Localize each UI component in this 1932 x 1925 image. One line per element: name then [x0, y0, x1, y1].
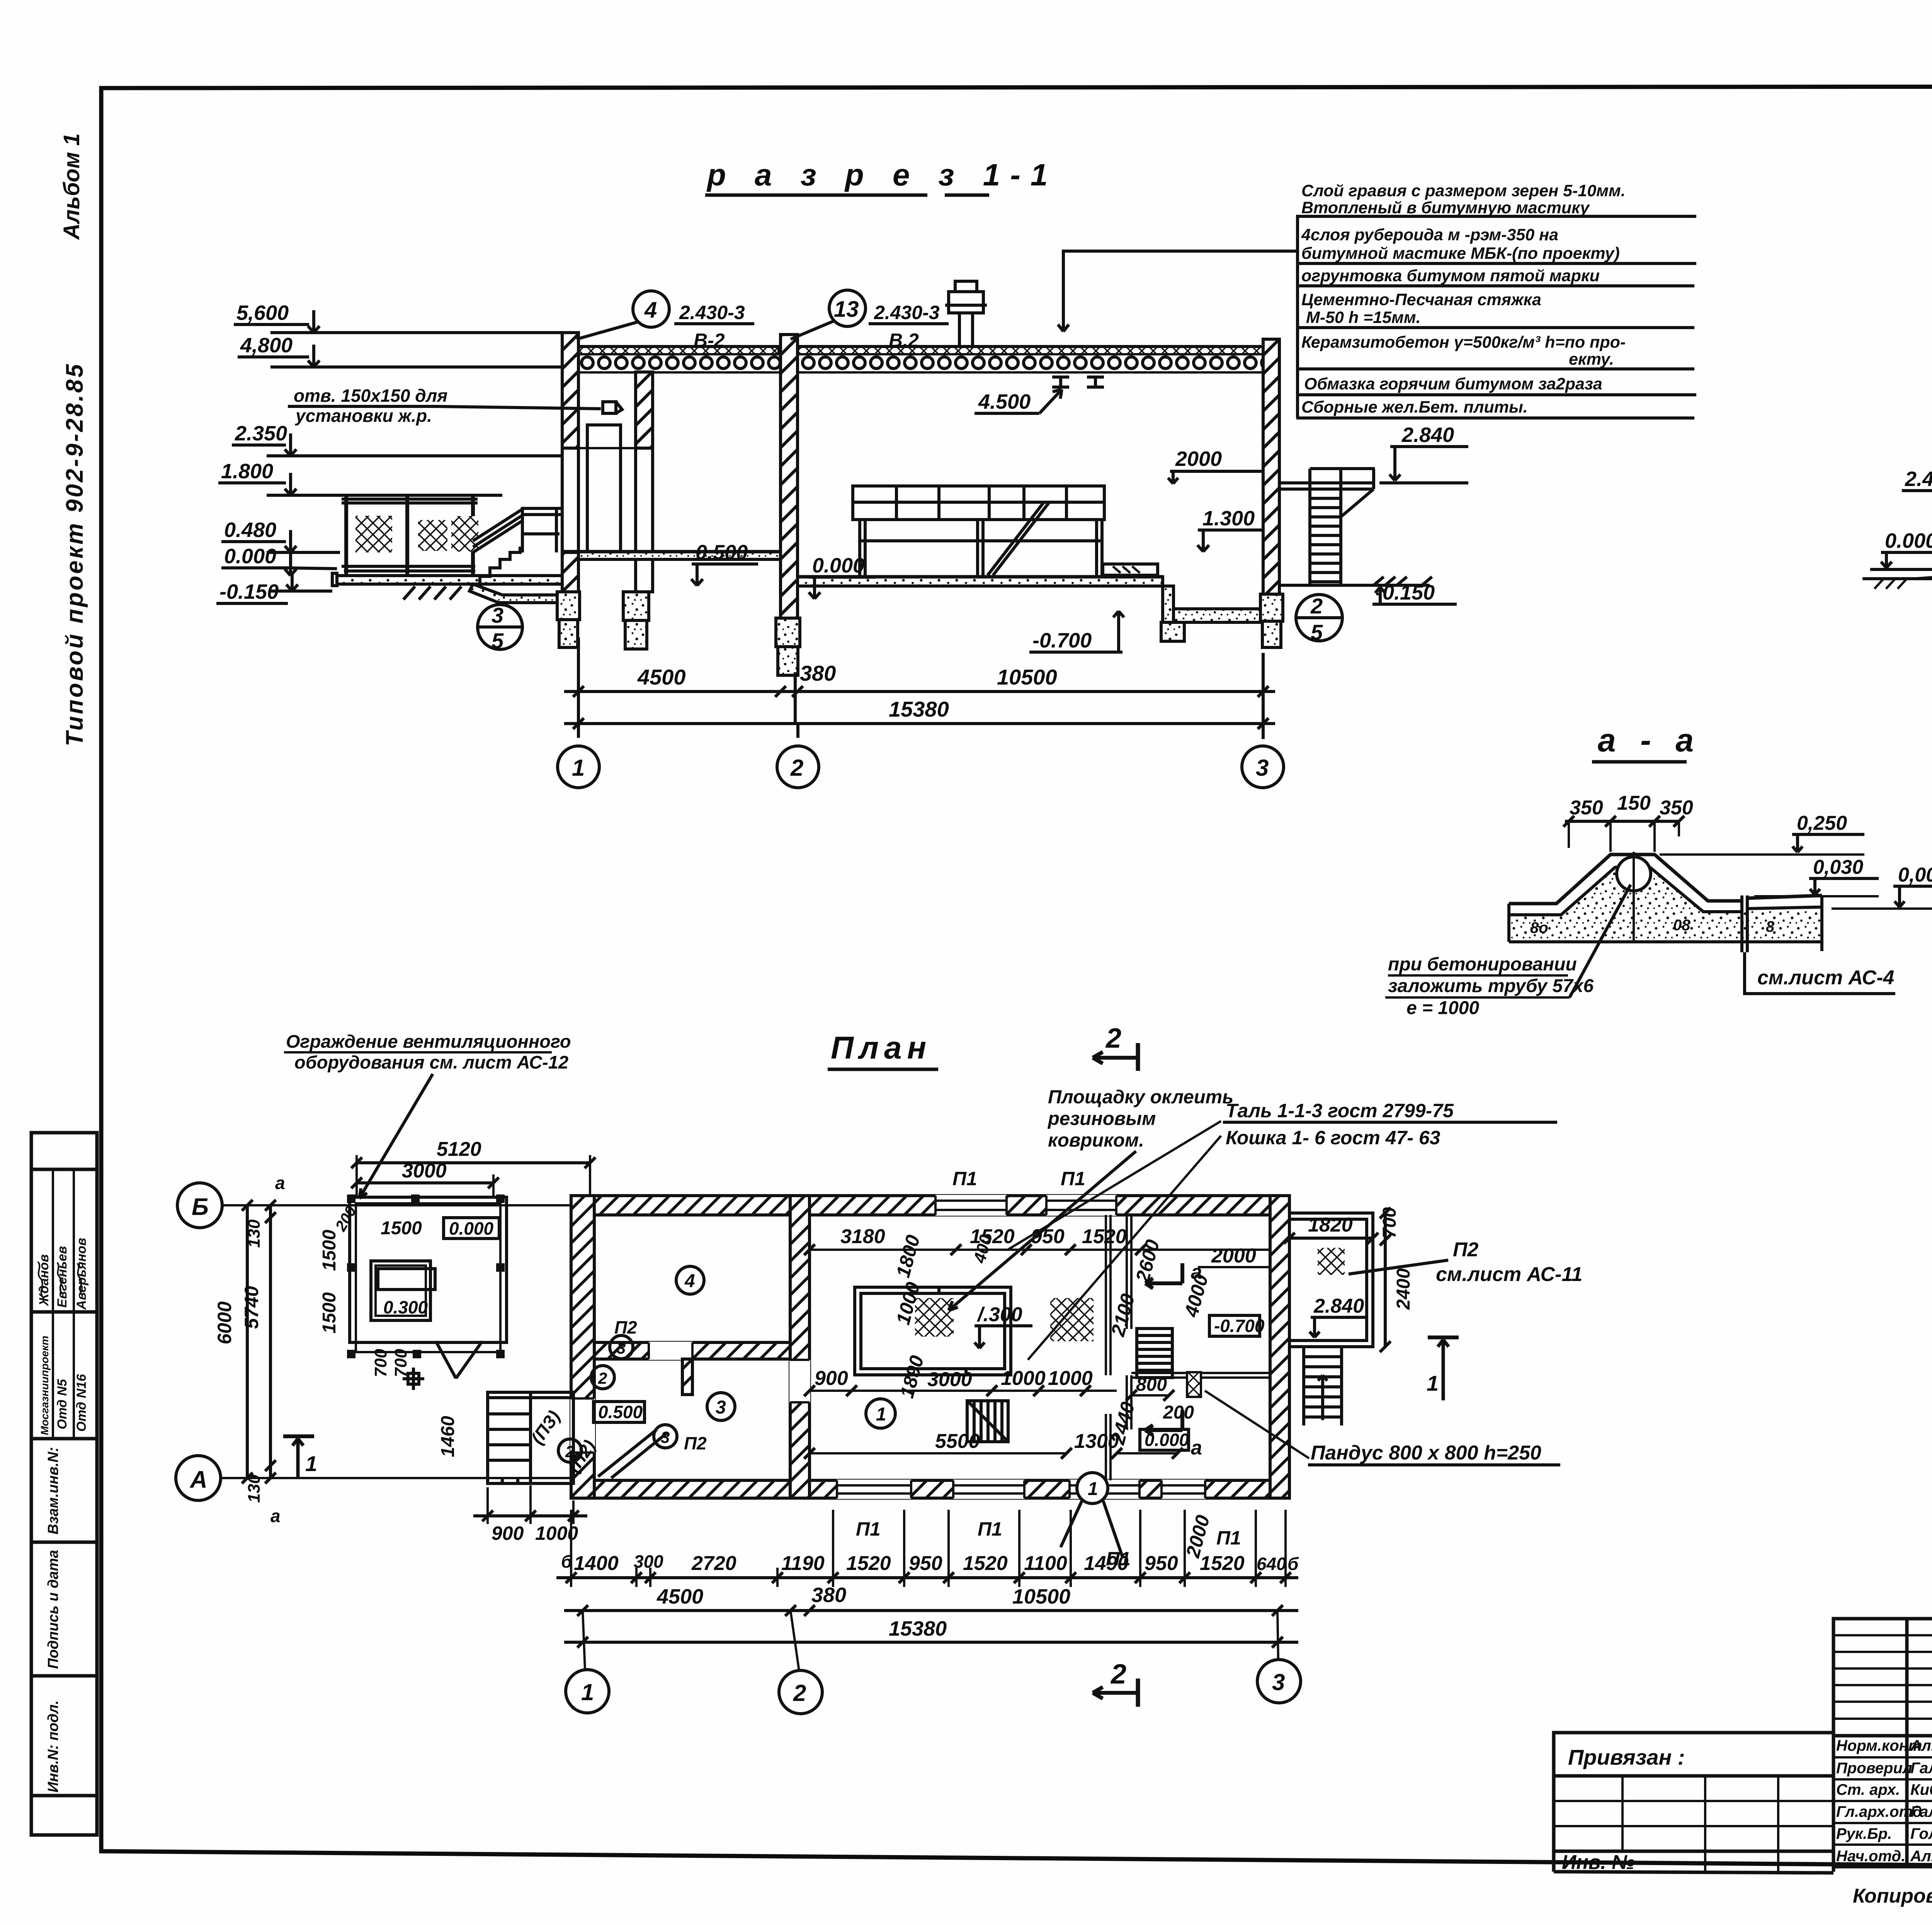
svg-text:а: а	[275, 1173, 285, 1193]
dims 350 150 350	[1563, 792, 1693, 852]
bottom dim chain row1	[556, 1510, 1299, 1587]
svg-text:Пандус 800 х 800 h=250: Пандус 800 х 800 h=250	[1311, 1442, 1541, 1464]
see sheet AC-4	[1745, 952, 1895, 994]
svg-text:3: 3	[661, 1428, 670, 1446]
signature table	[1833, 1619, 1932, 1867]
svg-text:2.415: 2.415	[1905, 467, 1932, 491]
svg-text:10500: 10500	[997, 665, 1057, 689]
svg-text:1: 1	[305, 1451, 317, 1476]
svg-text:0.000: 0.000	[449, 1218, 494, 1239]
dim 2000 door	[1168, 447, 1263, 484]
svg-text:Б: Б	[192, 1194, 209, 1220]
svg-text:Галактионов: Галактионов	[1910, 1803, 1932, 1820]
svg-text:0.480: 0.480	[224, 518, 276, 542]
section mark 2 bottom	[1093, 1659, 1138, 1707]
svg-text:Таль 1-1-3 гост 2799-75: Таль 1-1-3 гост 2799-75	[1226, 1100, 1454, 1121]
stair room1	[967, 1401, 1008, 1442]
svg-text:1: 1	[572, 755, 585, 781]
door opening in wall axis1 area (niche)	[587, 425, 621, 552]
wall axis 2	[781, 335, 798, 618]
svg-text:а: а	[1191, 1437, 1202, 1459]
dim 800 + 200	[1126, 1375, 1194, 1423]
roof slab bay 2	[797, 355, 1263, 372]
roof notes block	[1301, 182, 1626, 416]
svg-text:1500: 1500	[319, 1292, 340, 1334]
svg-text:Цементно-Песчаная стяжка: Цементно-Песчаная стяжка	[1301, 291, 1541, 309]
svg-text:В-2: В-2	[694, 330, 725, 351]
mound section outline	[1509, 855, 1822, 952]
svg-text:2: 2	[790, 755, 803, 781]
svg-text:2.350: 2.350	[235, 422, 287, 445]
svg-text:4: 4	[644, 297, 657, 323]
callout circle 13	[791, 290, 949, 351]
svg-text:700: 700	[371, 1349, 390, 1377]
dims lower room1	[804, 1430, 1183, 1459]
svg-text:Нач.отд.: Нач.отд.	[1836, 1848, 1905, 1865]
svg-text:0.000: 0.000	[1885, 529, 1932, 552]
bottom dim chain row3	[564, 1617, 1298, 1648]
detail circle 3/5	[478, 603, 522, 653]
svg-text:П1: П1	[978, 1518, 1002, 1540]
svg-text:Отд N5: Отд N5	[55, 1379, 70, 1429]
leader to roof	[1058, 251, 1296, 331]
foundation under wall axis2	[776, 618, 800, 675]
svg-text:1520: 1520	[1082, 1225, 1127, 1248]
partition B thin	[1127, 1215, 1131, 1429]
svg-text:П2: П2	[1453, 1239, 1478, 1261]
svg-text:Норм.конт: Норм.конт	[1836, 1737, 1922, 1754]
svg-text:Ст. арх.: Ст. арх.	[1836, 1781, 1900, 1798]
svg-text:1500: 1500	[381, 1218, 422, 1239]
foundation under column	[623, 592, 649, 649]
svg-text:1: 1	[1427, 1371, 1439, 1395]
inner equipment	[371, 1261, 430, 1320]
svg-text:10500: 10500	[1012, 1585, 1070, 1608]
window openings top wall	[935, 1195, 1116, 1216]
svg-text:Втопленый в битумную мастику: Втопленый в битумную мастику	[1301, 199, 1590, 217]
section 1-1 title	[706, 158, 1058, 192]
svg-text:2.430-3: 2.430-3	[874, 302, 940, 323]
section mark 2 top	[1093, 1023, 1138, 1071]
svg-text:130: 130	[245, 1219, 264, 1248]
rotated project label	[59, 133, 88, 746]
exterior stair right	[1279, 469, 1375, 584]
svg-text:Площадку оклеить: Площадку оклеить	[1048, 1087, 1233, 1108]
svg-text:П2: П2	[614, 1317, 637, 1337]
svg-text:0.500: 0.500	[598, 1402, 643, 1422]
section mark 1 right	[1427, 1337, 1459, 1400]
tambour pier	[682, 1359, 692, 1395]
small stair right room	[1137, 1329, 1172, 1378]
svg-text:а: а	[270, 1506, 281, 1526]
svg-text:2.430-3: 2.430-3	[679, 302, 745, 323]
svg-text:екту.: екту.	[1569, 350, 1614, 369]
svg-text:Слой гравия с размером зерен 5: Слой гравия с размером зерен 5-10мм.	[1301, 182, 1626, 200]
svg-text:-0.700: -0.700	[1214, 1316, 1265, 1336]
svg-text:2400: 2400	[1393, 1268, 1414, 1310]
ground hatch under porch	[403, 586, 461, 600]
svg-text:Проверил: Проверил	[1836, 1760, 1912, 1777]
level boxes	[444, 1218, 499, 1239]
svg-text:П1: П1	[952, 1168, 977, 1189]
cross symbol	[403, 1368, 424, 1390]
svg-text:3: 3	[1256, 755, 1269, 781]
tambour door swings	[598, 1429, 668, 1478]
corner plates	[347, 1194, 505, 1358]
svg-text:1: 1	[876, 1404, 886, 1425]
svg-text:1460: 1460	[438, 1416, 458, 1457]
label 1.300	[1197, 507, 1263, 552]
fence rails	[342, 499, 478, 571]
extension lines to bubbles	[583, 1611, 1278, 1671]
dim 2000 right room	[1198, 1245, 1270, 1267]
axis bubble 3	[1242, 746, 1284, 788]
svg-text:-0.700: -0.700	[1032, 629, 1092, 652]
svg-text:5740: 5740	[241, 1286, 262, 1329]
svg-text:150: 150	[1617, 792, 1651, 814]
mesh panels	[355, 516, 392, 552]
svg-text:0.300: 0.300	[383, 1297, 428, 1317]
level 0.000	[1832, 864, 1932, 909]
svg-text:огрунтовка битумом пятой марки: огрунтовка битумом пятой марки	[1301, 267, 1600, 285]
svg-text:0,030: 0,030	[1813, 856, 1863, 878]
svg-text:2: 2	[1105, 1023, 1121, 1054]
bottom dim chain row2	[564, 1583, 1298, 1616]
svg-text:350: 350	[1570, 797, 1603, 819]
floor 0.500 bay1	[562, 552, 781, 559]
svg-text:15380: 15380	[889, 1617, 947, 1640]
svg-text:13: 13	[834, 297, 859, 322]
partition horizontal right	[1131, 1373, 1270, 1378]
svg-text:1000: 1000	[1048, 1367, 1093, 1390]
elevation 0.000 left	[1870, 529, 1932, 569]
svg-text:900: 900	[492, 1522, 524, 1544]
ground line right	[1279, 584, 1430, 587]
svg-text:Рук.Бр.: Рук.Бр.	[1836, 1825, 1892, 1842]
axis bubble 2	[777, 746, 819, 788]
plan title	[831, 1030, 932, 1065]
a-a marks in plan	[1145, 1261, 1202, 1459]
svg-text:8о: 8о	[1530, 919, 1548, 936]
axis bubble 1	[558, 746, 599, 788]
partition room4/3	[594, 1342, 790, 1360]
svg-text:Сборные жел.Бет. плиты.: Сборные жел.Бет. плиты.	[1301, 398, 1528, 416]
svg-text:0.000: 0.000	[812, 554, 864, 577]
dim line 4500/380/10500	[564, 661, 1275, 697]
door opening axis2 wall	[789, 1360, 810, 1402]
partition A thin	[1106, 1215, 1111, 1480]
porch stairs	[480, 547, 520, 584]
svg-text:1520: 1520	[846, 1552, 891, 1575]
boxed 0.500 tambour	[594, 1402, 645, 1422]
svg-text:е = 1000: е = 1000	[1406, 998, 1479, 1018]
svg-text:4,800: 4,800	[240, 334, 293, 357]
svg-text:1500: 1500	[319, 1230, 340, 1271]
svg-text:см.лист АС-4: см.лист АС-4	[1757, 967, 1894, 989]
svg-text:Галактионов: Галактионов	[1910, 1760, 1932, 1777]
svg-text:0,250: 0,250	[1797, 812, 1847, 834]
porch fence posts	[346, 494, 473, 576]
svg-text:3180: 3180	[840, 1225, 885, 1248]
axis bubble 1 plan	[566, 1670, 609, 1713]
svg-text:950: 950	[909, 1552, 942, 1575]
svg-text:П1: П1	[1061, 1168, 1085, 1189]
svg-text:6000: 6000	[214, 1301, 235, 1344]
svg-text:Кошка 1- 6 гост 47- 63: Кошка 1- 6 гост 47- 63	[1226, 1127, 1440, 1149]
svg-text:М-50 h =15мм.: М-50 h =15мм.	[1306, 308, 1421, 327]
a-a title	[1598, 722, 1701, 758]
entrance porch left	[488, 1392, 573, 1483]
left stamp column	[31, 1133, 97, 1835]
svg-text:Альтшуллер: Альтшуллер	[1910, 1848, 1932, 1865]
elevation 1.800	[218, 460, 502, 495]
label 0.500	[691, 541, 758, 586]
leader pipe note	[1385, 885, 1631, 1018]
svg-text:1: 1	[1088, 1479, 1098, 1499]
svg-text:3: 3	[617, 1339, 626, 1357]
svg-text:950: 950	[1145, 1552, 1178, 1575]
svg-text:Типовой проект 902-9-28.85: Типовой проект 902-9-28.85	[61, 362, 88, 746]
privyazan box	[1554, 1733, 1833, 1874]
svg-text:300: 300	[634, 1551, 663, 1572]
svg-text:б: б	[1287, 1554, 1299, 1574]
roof vent deflector	[945, 281, 987, 347]
svg-text:640: 640	[1257, 1554, 1286, 1574]
svg-text:1190: 1190	[781, 1552, 825, 1575]
rotated small texts in stamp	[37, 1238, 89, 1792]
svg-text:15380: 15380	[889, 697, 949, 721]
pandus hatch	[1187, 1372, 1201, 1397]
svg-text:1400: 1400	[574, 1552, 619, 1575]
svg-text:5120: 5120	[437, 1138, 481, 1160]
level 0.250	[1660, 812, 1864, 855]
door swing	[436, 1341, 482, 1378]
label 2.840 plan	[1310, 1295, 1368, 1337]
label 0.000 bay2	[809, 554, 876, 599]
porch floor slab	[332, 573, 562, 586]
right porch stair	[1304, 1347, 1342, 1425]
misc labels tambour	[527, 1317, 707, 1476]
concrete apron to stairs	[469, 584, 562, 603]
svg-text:4: 4	[684, 1271, 695, 1291]
pit floor	[1173, 609, 1266, 622]
svg-text:0,000: 0,000	[1898, 864, 1932, 886]
mound concrete dots fill	[1509, 867, 1822, 942]
hollow core circles	[580, 355, 779, 371]
axis line B	[223, 1204, 571, 1206]
label P2 see AC-11	[1349, 1239, 1582, 1286]
roof gravel band bay1	[578, 347, 779, 355]
monorail platform room1	[855, 1287, 1011, 1375]
vent enclosure plan	[319, 1138, 595, 1457]
gas equipment rack	[853, 486, 1158, 575]
dim line 15380	[564, 697, 1275, 729]
svg-text:Кибальчич: Кибальчич	[1910, 1781, 1932, 1798]
svg-text:р а з р е з 1-1: р а з р е з 1-1	[706, 158, 1058, 192]
note otv 150x150	[288, 386, 601, 426]
elevation 0.000	[221, 545, 337, 576]
svg-text:0.000: 0.000	[224, 545, 276, 568]
svg-text:3000: 3000	[402, 1160, 447, 1182]
interior column	[636, 372, 653, 592]
small signature squiggles in stamp	[38, 1262, 82, 1298]
notes top right of plan	[1047, 1087, 1233, 1151]
elevation 0.480	[221, 518, 340, 552]
otv 150x150 opening	[603, 402, 616, 413]
crane I-beams	[1052, 377, 1104, 387]
svg-text:2: 2	[598, 1369, 607, 1387]
svg-text:800: 800	[1136, 1375, 1167, 1395]
svg-text:5: 5	[492, 629, 504, 653]
equipment crosshatch 2	[1050, 1298, 1094, 1341]
axis bubble B left	[177, 1183, 222, 1228]
rotated dims	[892, 1232, 1214, 1560]
porch dims 900 1000	[473, 1485, 587, 1544]
svg-text:2000: 2000	[1211, 1245, 1256, 1267]
callout circle 1 on bottom wall	[1061, 1473, 1122, 1557]
ground line left with ramp	[1862, 570, 1932, 589]
svg-text:П2: П2	[684, 1433, 707, 1453]
svg-text:А: А	[189, 1466, 207, 1493]
svg-text:8: 8	[1766, 918, 1775, 935]
svg-text:см.лист АС-11: см.лист АС-11	[1436, 1263, 1582, 1286]
elevation -0.150	[216, 572, 332, 603]
note fence vent equipment	[286, 1031, 571, 1072]
label -0.700	[1029, 611, 1124, 652]
svg-text:1520: 1520	[963, 1552, 1008, 1575]
svg-text:В.2: В.2	[889, 330, 919, 351]
svg-text:резиновым: резиновым	[1047, 1108, 1156, 1129]
landing railing	[521, 507, 561, 552]
svg-text:2: 2	[1110, 1659, 1126, 1690]
svg-text:при бетонировании: при бетонировании	[1388, 954, 1577, 975]
svg-text:Альтшуллер: Альтшуллер	[1910, 1737, 1932, 1754]
svg-text:08: 08	[1673, 917, 1690, 934]
svg-text:4500: 4500	[637, 665, 686, 689]
svg-text:900: 900	[815, 1367, 848, 1390]
dims	[357, 1161, 590, 1164]
svg-text:0.500: 0.500	[696, 541, 748, 564]
elevation 2.350	[232, 422, 562, 456]
svg-text:380: 380	[800, 661, 836, 685]
svg-text:3: 3	[492, 603, 503, 627]
svg-text:3: 3	[1272, 1669, 1285, 1695]
foundation under wall axis1	[557, 592, 580, 647]
foundation under wall axis3	[1260, 594, 1283, 647]
level 0.030	[1754, 856, 1879, 896]
svg-text:-0.150: -0.150	[219, 580, 279, 603]
svg-text:700: 700	[1379, 1207, 1400, 1238]
svg-text:5,600: 5,600	[236, 301, 289, 325]
svg-text:/.300: /.300	[977, 1303, 1022, 1326]
svg-text:2.840: 2.840	[1313, 1295, 1364, 1317]
svg-text:200: 200	[1163, 1402, 1194, 1423]
stair railing	[473, 509, 522, 552]
svg-text:Аверьянов: Аверьянов	[74, 1238, 89, 1310]
axis bubble A left	[176, 1456, 221, 1500]
svg-text:3: 3	[716, 1397, 726, 1418]
P1 labels	[856, 1168, 1241, 1570]
svg-text:Отд N16: Отд N16	[74, 1374, 89, 1432]
svg-text:1000: 1000	[1001, 1367, 1046, 1390]
svg-text:П1: П1	[856, 1518, 881, 1540]
svg-text:Инв. №: Инв. №	[1562, 1851, 1635, 1874]
svg-text:1.800: 1.800	[221, 460, 273, 483]
label 4.500	[975, 389, 1062, 413]
svg-text:2720: 2720	[691, 1552, 736, 1575]
svg-text:Взам.инв.N:: Взам.инв.N:	[45, 1447, 61, 1534]
svg-text:130: 130	[245, 1474, 264, 1503]
svg-text:Привязан :: Привязан :	[1568, 1745, 1685, 1769]
svg-text:Керамзитобетон γ=500кг/м³ h=по: Керамзитобетон γ=500кг/м³ h=по про-	[1301, 333, 1626, 352]
elevation 5.600	[234, 301, 562, 333]
svg-text:Гл.арх.отд: Гл.арх.отд	[1836, 1803, 1922, 1820]
label 1.300 plan	[975, 1303, 1032, 1348]
svg-text:битумной мастике МБК-(по проек: битумной мастике МБК-(по проекту)	[1301, 244, 1620, 263]
svg-text:2: 2	[793, 1680, 806, 1706]
svg-text:5: 5	[1311, 620, 1323, 644]
svg-text:Гольдина: Гольдина	[1910, 1825, 1932, 1842]
svg-text:380: 380	[811, 1583, 846, 1607]
right wall	[1270, 1196, 1289, 1498]
svg-text:2: 2	[1310, 594, 1323, 618]
pandus label	[1205, 1391, 1560, 1465]
dims inside room1 top	[804, 1225, 1270, 1255]
svg-text:Мосгазниипроект: Мосгазниипроект	[39, 1335, 51, 1435]
svg-text:Обмазка горячим битумом за2раз: Обмазка горячим битумом за2раза	[1304, 375, 1602, 393]
bottom margin texts	[1853, 1883, 1932, 1907]
svg-text:4.500: 4.500	[978, 390, 1031, 413]
svg-text:350: 350	[1660, 797, 1693, 819]
svg-text:Альбом 1: Альбом 1	[59, 133, 84, 240]
detail circle 2/5	[1296, 594, 1342, 644]
roof slab bay 1	[578, 355, 779, 372]
dims mid room1	[804, 1367, 1117, 1396]
pit wall	[1163, 586, 1173, 622]
svg-text:1: 1	[581, 1679, 594, 1705]
window openings bottom wall	[837, 1480, 1205, 1499]
floor 0.000 bay2	[798, 577, 1163, 586]
axis bubble 2 plan	[779, 1670, 822, 1714]
section mark 1 left	[283, 1436, 317, 1479]
svg-text:1.300: 1.300	[1202, 507, 1255, 530]
svg-text:2000: 2000	[1175, 447, 1222, 471]
svg-text:Копировал. Синицына: Копировал. Синицына	[1853, 1885, 1932, 1907]
svg-text:ковриком.: ковриком.	[1048, 1130, 1144, 1151]
svg-text:План: План	[831, 1030, 932, 1065]
svg-text:1520: 1520	[1200, 1552, 1245, 1575]
level boxes right rooms	[1140, 1315, 1265, 1450]
dim extension lines	[578, 637, 1263, 739]
bottom wall	[571, 1480, 1289, 1498]
axis2 wall	[790, 1196, 810, 1498]
svg-text:2.840: 2.840	[1401, 423, 1454, 447]
equipment crosshatch 1	[915, 1298, 954, 1337]
svg-text:а - а: а - а	[1598, 722, 1701, 758]
wall axis 3	[1263, 339, 1279, 594]
room number circles	[676, 1266, 704, 1294]
svg-text:4500: 4500	[656, 1585, 703, 1608]
svg-text:1820: 1820	[1308, 1214, 1353, 1236]
main building walls	[571, 1196, 1289, 1498]
svg-text:Ограждение вентиляционного: Ограждение вентиляционного	[286, 1031, 571, 1052]
svg-text:4слоя рубероида м -рэм-350 на: 4слоя рубероида м -рэм-350 на	[1301, 226, 1558, 244]
plan left vertical dims	[214, 1173, 285, 1526]
svg-text:б: б	[561, 1551, 573, 1572]
svg-text:3000: 3000	[927, 1368, 972, 1391]
svg-text:Евгеньев: Евгеньев	[55, 1246, 70, 1308]
svg-text:отв. 150х150 для: отв. 150х150 для	[294, 386, 447, 406]
